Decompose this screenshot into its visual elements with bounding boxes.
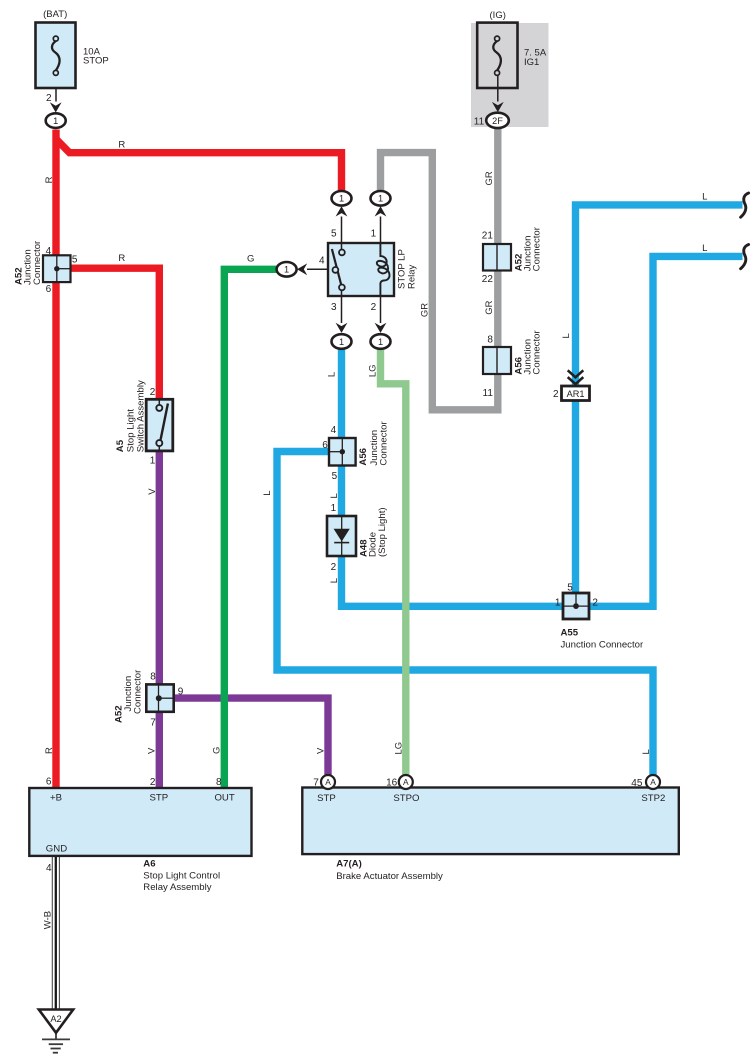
svg-text:G: G <box>212 747 223 754</box>
svg-text:1: 1 <box>284 265 289 275</box>
svg-text:1: 1 <box>53 116 58 126</box>
svg-text:Connector: Connector <box>32 240 43 285</box>
svg-text:(Stop Light): (Stop Light) <box>377 507 388 557</box>
svg-text:4: 4 <box>46 863 52 874</box>
svg-text:GR: GR <box>484 300 495 314</box>
svg-text:2: 2 <box>371 302 377 313</box>
svg-text:4: 4 <box>46 246 52 257</box>
svg-text:GR: GR <box>419 303 430 317</box>
svg-text:OUT: OUT <box>214 793 234 804</box>
svg-text:7: 7 <box>150 718 156 729</box>
svg-text:A: A <box>650 777 656 787</box>
svg-text:L: L <box>702 243 707 254</box>
svg-text:A5: A5 <box>115 439 126 452</box>
svg-text:7: 7 <box>313 777 319 788</box>
svg-text:W-B: W-B <box>42 911 53 929</box>
svg-text:5: 5 <box>331 229 337 240</box>
svg-text:STP: STP <box>149 793 168 804</box>
svg-text:11: 11 <box>474 117 485 128</box>
svg-text:STP: STP <box>317 793 336 804</box>
svg-text:5: 5 <box>332 471 338 482</box>
svg-text:L: L <box>327 372 338 377</box>
svg-text:2: 2 <box>150 777 156 788</box>
svg-text:1: 1 <box>555 598 561 609</box>
svg-text:1: 1 <box>150 455 156 466</box>
svg-text:G: G <box>247 254 254 265</box>
svg-text:1: 1 <box>339 194 344 204</box>
svg-text:L: L <box>262 491 273 496</box>
svg-text:Switch Assembly: Switch Assembly <box>136 380 147 452</box>
svg-text:STOP: STOP <box>83 56 109 67</box>
svg-text:L: L <box>641 749 652 754</box>
svg-text:Relay: Relay <box>407 264 418 289</box>
svg-text:1: 1 <box>378 337 383 347</box>
svg-text:GND: GND <box>46 844 67 855</box>
svg-text:(IG): (IG) <box>490 10 506 21</box>
svg-text:6: 6 <box>46 284 52 295</box>
svg-text:A2: A2 <box>50 1014 61 1024</box>
svg-text:R: R <box>44 176 55 183</box>
svg-text:6: 6 <box>322 440 328 451</box>
svg-text:LG: LG <box>367 364 378 377</box>
svg-text:2: 2 <box>331 562 337 573</box>
svg-text:L: L <box>561 333 572 338</box>
svg-text:STP2: STP2 <box>641 793 665 804</box>
svg-text:2F: 2F <box>492 116 503 126</box>
svg-text:16: 16 <box>386 777 398 788</box>
svg-text:A55: A55 <box>561 627 579 638</box>
svg-text:Brake Actuator Assembly: Brake Actuator Assembly <box>336 871 443 882</box>
svg-text:V: V <box>147 488 158 495</box>
svg-text:2: 2 <box>150 387 156 398</box>
svg-text:R: R <box>118 139 125 150</box>
svg-text:45: 45 <box>631 778 643 789</box>
svg-text:5: 5 <box>567 583 573 594</box>
svg-text:L: L <box>329 578 340 583</box>
svg-text:+B: +B <box>50 793 62 804</box>
svg-text:Connector: Connector <box>532 226 543 271</box>
svg-text:Connector: Connector <box>532 330 543 375</box>
svg-text:LG: LG <box>393 742 404 755</box>
svg-text:22: 22 <box>482 274 494 285</box>
svg-text:L: L <box>702 192 707 203</box>
svg-text:Junction Connector: Junction Connector <box>561 639 644 650</box>
svg-text:AR1: AR1 <box>567 389 585 399</box>
svg-text:STPO: STPO <box>393 793 419 804</box>
svg-text:A6: A6 <box>143 859 155 870</box>
svg-text:2: 2 <box>592 598 598 609</box>
svg-text:9: 9 <box>178 687 184 698</box>
svg-text:A56: A56 <box>358 448 369 466</box>
svg-text:8: 8 <box>487 335 493 346</box>
svg-text:Connector: Connector <box>133 669 144 714</box>
svg-text:4: 4 <box>319 256 325 267</box>
svg-text:6: 6 <box>46 777 52 788</box>
svg-text:1: 1 <box>331 503 337 514</box>
svg-text:A: A <box>325 777 331 787</box>
svg-text:8: 8 <box>216 777 222 788</box>
svg-text:L: L <box>329 493 340 498</box>
svg-text:21: 21 <box>482 231 494 242</box>
svg-text:A7(A): A7(A) <box>336 859 362 870</box>
svg-text:2: 2 <box>46 93 52 104</box>
svg-text:(BAT): (BAT) <box>43 9 67 20</box>
svg-text:Stop Light Control: Stop Light Control <box>143 870 220 881</box>
svg-text:1: 1 <box>339 337 344 347</box>
svg-text:11: 11 <box>483 388 494 399</box>
svg-text:R: R <box>118 253 125 264</box>
svg-text:R: R <box>44 747 55 754</box>
svg-text:5: 5 <box>72 254 78 265</box>
svg-text:GR: GR <box>484 171 495 185</box>
svg-text:V: V <box>147 747 158 754</box>
svg-text:4: 4 <box>331 425 337 436</box>
svg-text:Relay Assembly: Relay Assembly <box>143 882 211 893</box>
svg-text:1: 1 <box>371 229 377 240</box>
svg-text:2: 2 <box>553 389 559 400</box>
svg-text:IG1: IG1 <box>524 57 539 68</box>
svg-text:V: V <box>316 747 327 754</box>
svg-text:3: 3 <box>331 302 337 313</box>
svg-text:A: A <box>403 777 409 787</box>
svg-text:8: 8 <box>150 672 156 683</box>
svg-text:Connector: Connector <box>378 421 389 466</box>
svg-text:1: 1 <box>378 194 383 204</box>
